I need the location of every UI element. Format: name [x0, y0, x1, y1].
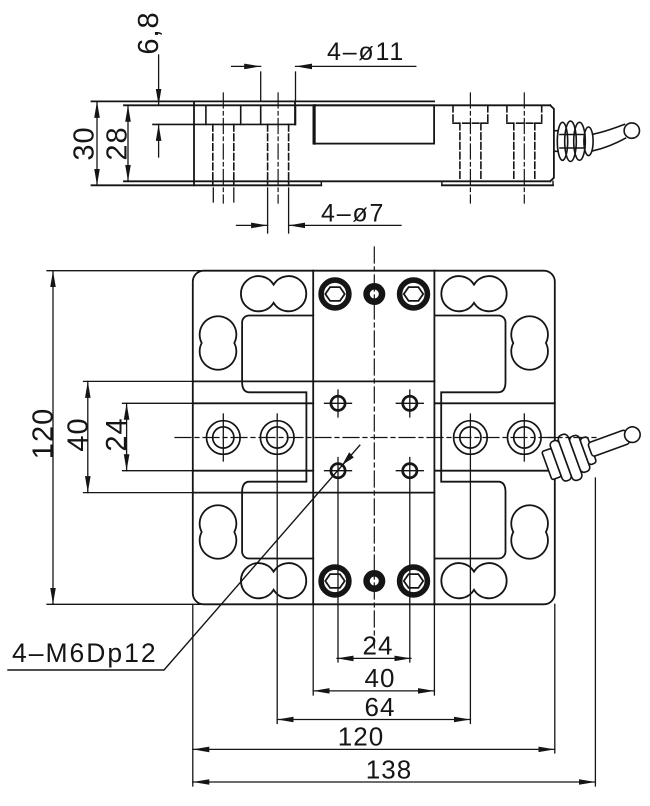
svg-text:4–M6Dp12: 4–M6Dp12 — [12, 638, 158, 668]
svg-text:24: 24 — [101, 417, 133, 451]
svg-text:24: 24 — [363, 631, 394, 661]
svg-text:4–ø11: 4–ø11 — [327, 38, 405, 66]
svg-text:64: 64 — [365, 692, 396, 722]
svg-text:40: 40 — [63, 417, 95, 451]
svg-text:40: 40 — [365, 663, 396, 693]
svg-text:6,8: 6,8 — [133, 11, 165, 54]
svg-text:120: 120 — [28, 408, 60, 459]
svg-text:28: 28 — [102, 126, 134, 160]
svg-text:138: 138 — [366, 754, 412, 784]
svg-text:4–ø7: 4–ø7 — [321, 200, 385, 228]
svg-text:120: 120 — [338, 722, 384, 752]
svg-text:30: 30 — [69, 126, 101, 160]
